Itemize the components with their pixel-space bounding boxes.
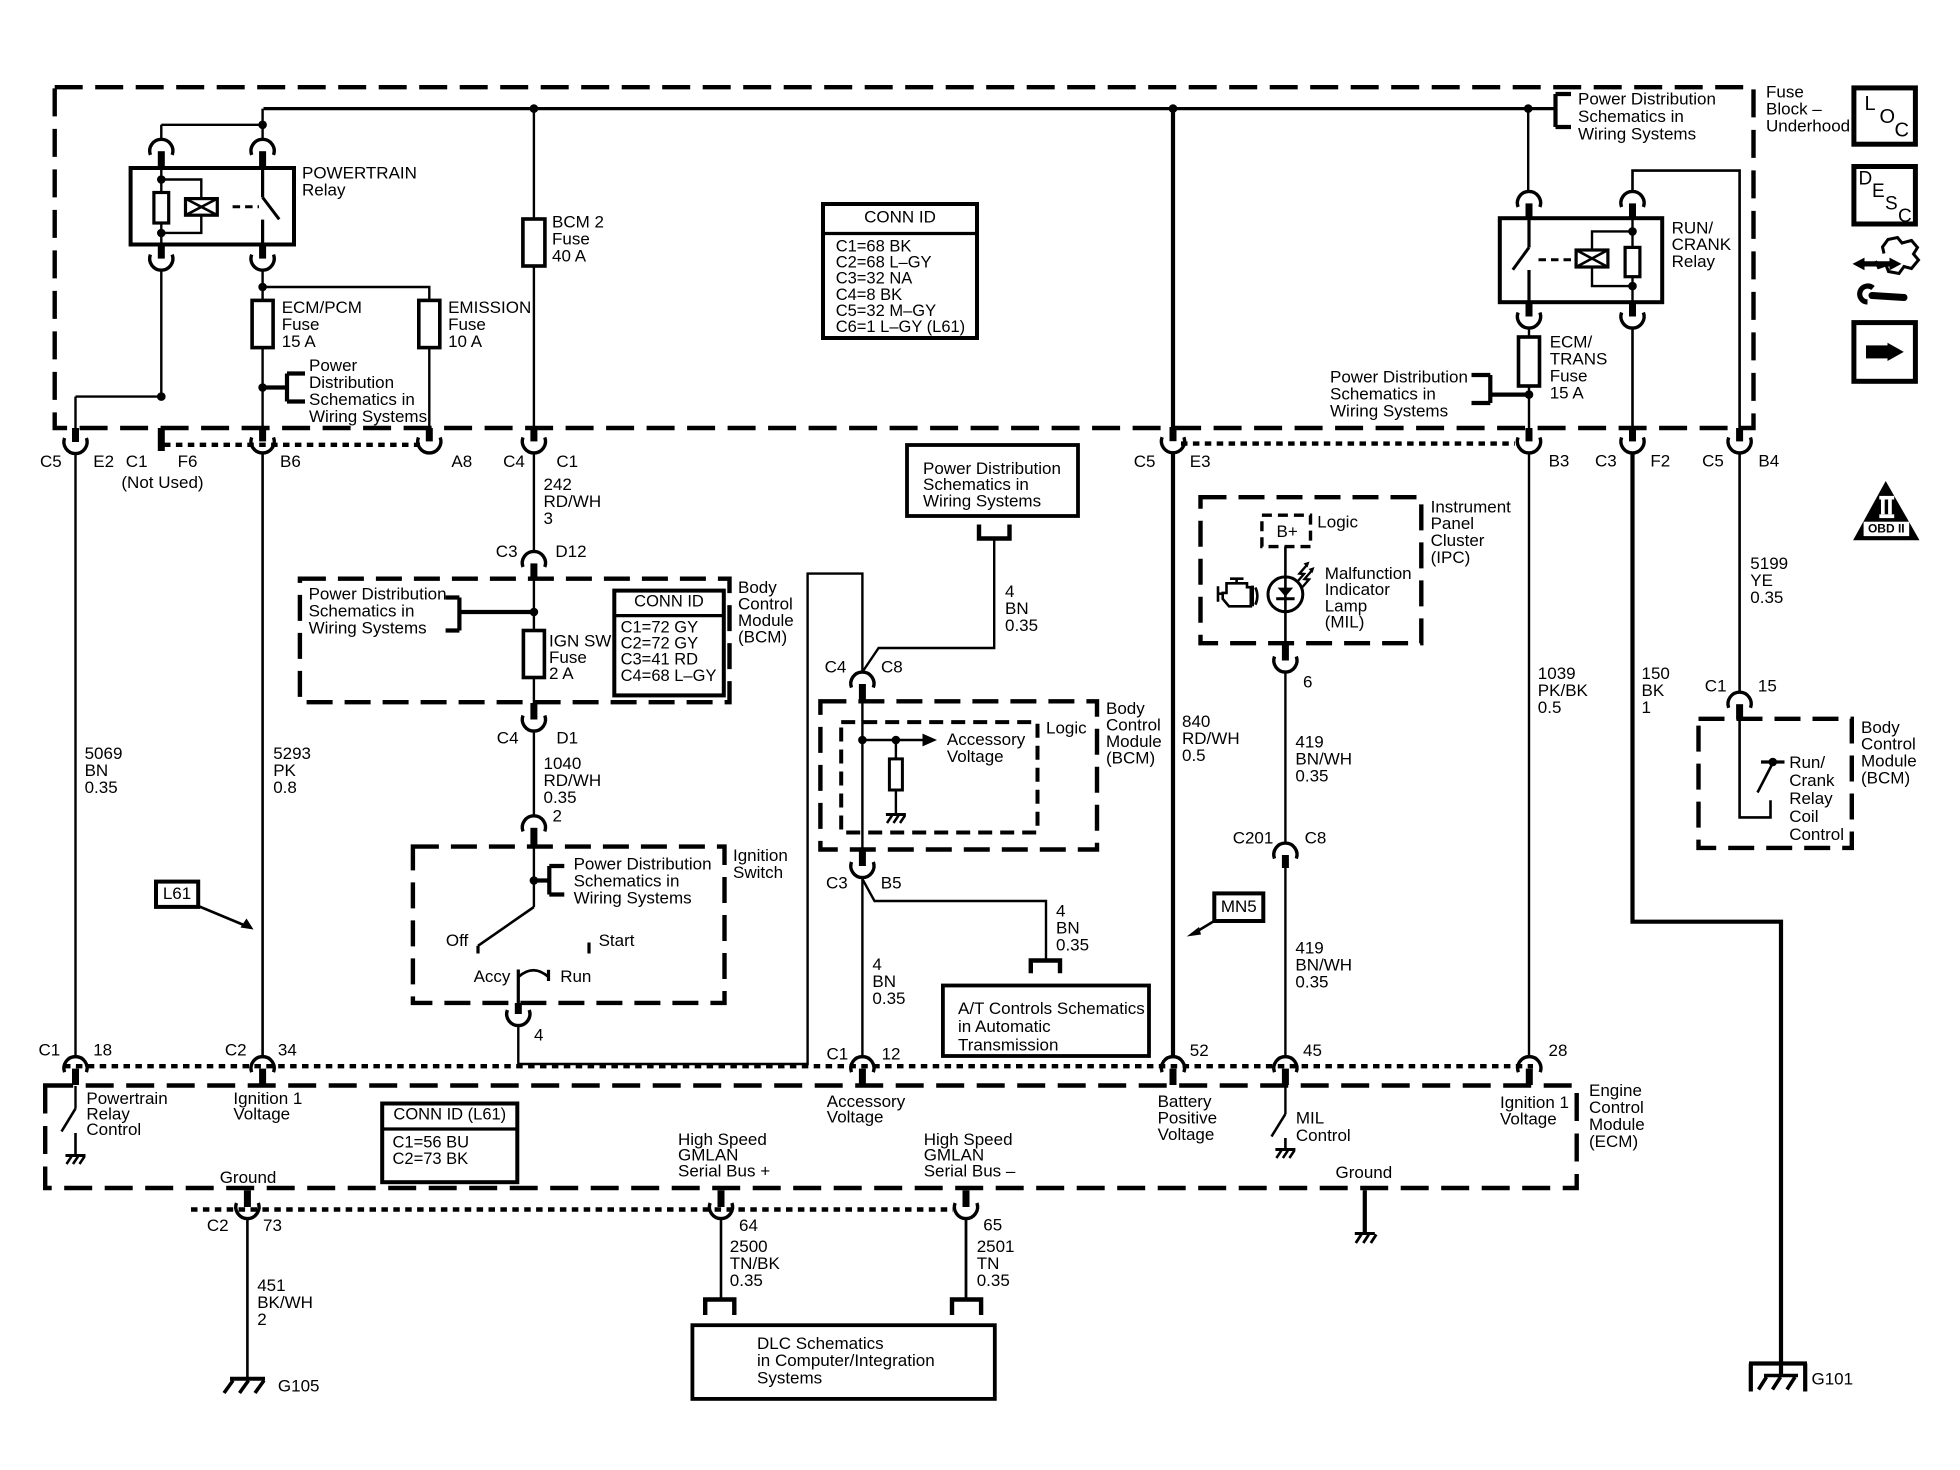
connector C5/E3 [1170,427,1177,441]
svg-text:D1: D1 [556,728,578,747]
ground (BCM logic) [886,813,906,816]
svg-text:Wiring Systems: Wiring Systems [309,407,427,426]
offpage bracket near B6 [263,374,305,402]
underhood connector face dotted line right [1181,441,1515,445]
wire run/crank coil control hook [1740,720,1771,818]
wire ECM/PCM fuse to B6 [261,348,263,428]
ECM powertrain relay control switch [74,1086,76,1109]
connector pin 65 [963,1190,970,1207]
junction dot resistor tap [892,736,901,745]
svg-text:73: 73 [263,1216,282,1235]
MIL lightning bolts [1298,566,1307,582]
svg-text:Underhood: Underhood [1766,116,1850,135]
wire coil loop [161,180,201,233]
svg-text:12: 12 [882,1044,901,1063]
svg-text:15 A: 15 A [282,332,317,351]
ignition Accy contact / pin4 wire [517,970,520,1004]
svg-text:Relay: Relay [1672,252,1716,271]
junction dot bus to BCM2 fuse [530,104,539,113]
svg-text:18: 18 [93,1040,112,1059]
offpage bracket ECM/TRANS [1472,375,1530,403]
svg-text:in Automatic: in Automatic [958,1017,1051,1036]
svg-text:Coil: Coil [1789,807,1818,826]
svg-text:MN5: MN5 [1221,897,1257,916]
svg-text:F6: F6 [178,452,198,471]
underhood connector face dotted line left [164,443,420,447]
junction dot BCM offpage tap [530,608,539,617]
fuse ECM/TRANS 15A [1519,337,1540,386]
relay K powertrain box [131,168,294,245]
svg-text:Ground: Ground [1336,1163,1393,1182]
fuse ECM/PCM 15A [252,300,273,347]
svg-text:L61: L61 [163,884,191,903]
accessory voltage arrow [862,739,923,742]
powertrain relay switch [261,168,264,197]
ignition Start contact [587,943,590,954]
connector C3/D12 [522,551,545,567]
ground (powertrain relay control) [66,1154,86,1157]
svg-text:Logic: Logic [1046,718,1087,737]
svg-text:E: E [1872,181,1885,202]
ignition switch blade [478,907,534,946]
svg-text:C3: C3 [496,542,518,561]
svg-text:C5: C5 [1134,452,1156,471]
svg-text:Systems: Systems [757,1368,822,1387]
svg-text:Run: Run [560,967,591,986]
resistor BCM pulldown [889,759,902,790]
svg-text:Wiring Systems: Wiring Systems [574,888,692,907]
svg-text:Ground: Ground [220,1168,277,1187]
svg-text:15: 15 [1758,676,1777,695]
resistor powertrain relay coil suppressor [154,193,169,224]
connector B6 [259,428,266,441]
connector IPC pin 6 [1282,643,1289,660]
logic inner dashed box [841,722,1037,832]
offpage cap bracket A/T [1029,961,1063,974]
wire B+ to MIL lamp [1284,547,1287,644]
svg-text:Relay: Relay [1789,789,1833,808]
ignition switch dashed box [413,847,725,1003]
svg-text:0.35: 0.35 [1295,972,1328,991]
wire ignition pin2 inside [533,847,535,907]
svg-text:0.35: 0.35 [1005,616,1038,635]
svg-text:Relay: Relay [302,180,346,199]
svg-text:C6=1 L–GY (L61): C6=1 L–GY (L61) [836,318,966,336]
wire coil bottom [160,223,162,245]
svg-text:40 A: 40 A [552,246,587,265]
junction dot ignition offpage tap [530,876,539,885]
offpage bracket top right [1556,94,1572,127]
ground G101 [1749,1361,1807,1365]
svg-text:Accy: Accy [474,967,511,986]
junction dot run/crank coil top [1628,227,1637,236]
wire run/crank right pin to F2 [1631,328,1634,428]
engine icon (check engine) [1230,579,1244,584]
wire powertrain relay feed corner [161,109,262,140]
wire 5199 YE [1738,453,1741,692]
connector C1/12 [851,1057,874,1073]
label MN5 box [1214,893,1263,921]
wire relay left pin to F6 and E2 link [76,270,162,428]
svg-text:15 A: 15 A [1550,383,1585,402]
connector C5/E2 [72,428,79,442]
svg-text:3: 3 [544,509,553,528]
wire run/crank coil feed top [1633,171,1740,428]
svg-text:S: S [1885,193,1898,214]
wire B5 to C1/12 [861,878,863,1057]
connector powertrain relay pin 85 (right top) [251,139,274,155]
ECM bottom connector face dotted line [191,1207,953,1211]
BCM coil control dashed box [1699,719,1852,848]
svg-text:(BCM): (BCM) [738,628,787,647]
connector C5/B4 [1736,428,1743,441]
svg-text:D12: D12 [555,542,586,561]
connector C2/34 [251,1057,274,1073]
ground G105 [230,1377,265,1381]
svg-text:G105: G105 [278,1376,320,1395]
wire run/crank coil bottom [1631,277,1633,303]
fuse block underhood dashed box [55,87,1754,428]
connector ignition switch pin 2 [522,816,545,832]
coil powertrain relay winding (X box) [186,199,218,216]
icon wrench arrows [1861,261,1893,266]
box Power Distribution Schematics (solid) [907,445,1078,516]
ground (ECM internal) [1355,1232,1375,1235]
connector powertrain relay pin 87 (right bottom) [259,245,266,259]
connector A8 [426,428,433,441]
coil run/crank winding (X box) [1576,250,1608,267]
svg-text:Voltage: Voltage [1158,1125,1215,1144]
lamp MIL circle [1268,577,1303,612]
svg-text:DLC Schematics: DLC Schematics [757,1334,884,1353]
ECM top connector face dotted line [64,1064,1533,1068]
MN5 arrow [1196,921,1215,933]
svg-text:2: 2 [553,806,562,825]
svg-text:L: L [1865,93,1876,115]
offpage bracket BCM [446,598,534,631]
connector powertrain relay pin 86 (left top) [150,139,173,155]
junction dot F6 wire link [157,392,166,401]
wire bus to BCM2 fuse [533,109,535,219]
junction dot ECM/TRANS offpage tap [1525,390,1534,399]
connector C3/B5 [859,850,866,867]
svg-text:C1: C1 [556,452,578,471]
svg-text:C3: C3 [1595,451,1617,470]
ignition Accy-Run arc [518,970,548,977]
svg-text:45: 45 [1303,1041,1322,1060]
junction dot logic node [858,736,867,745]
wire to ECM/PCM fuse [261,287,263,300]
L61 arrow [198,906,245,926]
wire inside BCM to IGN SW fuse [533,578,535,631]
svg-text:Start: Start [599,931,635,950]
ignition Run contact [547,970,550,981]
svg-text:C8: C8 [1305,828,1327,847]
svg-text:CONN ID: CONN ID [634,593,704,611]
svg-text:MIL: MIL [1296,1108,1324,1127]
connector C4/C8 [851,672,874,688]
svg-text:Wiring Systems: Wiring Systems [309,618,427,637]
connector pin 28 [1518,1057,1541,1073]
svg-text:(BCM): (BCM) [1861,768,1910,787]
connector B3 [1526,428,1533,441]
svg-text:Voltage: Voltage [233,1105,290,1124]
MIL LED cathode bar [1276,597,1294,600]
icon LOC box [1854,88,1916,144]
junction dot B6 offpage tap [258,383,267,392]
svg-text:0.5: 0.5 [1182,746,1206,765]
connector C1/15 [1728,692,1751,708]
wire main feed bus [264,107,1556,110]
svg-text:C1: C1 [39,1040,61,1059]
junction dot bus to battery feed [1169,104,1178,113]
connector ignition pin 4 [515,1003,522,1014]
connector C3/F2 [1629,428,1636,441]
svg-text:52: 52 [1190,1041,1209,1060]
svg-text:Control: Control [86,1120,141,1139]
svg-text:Schematics in: Schematics in [1578,107,1684,126]
svg-text:F2: F2 [1650,451,1670,470]
svg-text:Voltage: Voltage [1500,1110,1557,1129]
svg-text:D: D [1859,168,1873,189]
svg-text:G101: G101 [1812,1369,1854,1388]
svg-text:C2: C2 [207,1216,229,1235]
BCM dashed box (ign sw fuse) [300,579,730,703]
wire 2501 TN [965,1219,968,1300]
svg-text:Wiring Systems: Wiring Systems [1330,401,1448,420]
connector pin 45 [1274,1057,1297,1073]
svg-text:4: 4 [534,1025,543,1044]
BCM logic outer dashed box [820,701,1097,849]
svg-text:B+: B+ [1277,522,1298,541]
svg-text:Wiring Systems: Wiring Systems [923,491,1041,510]
table CONN ID (L61) [382,1104,517,1183]
offpage cap bracket DLC+ [703,1300,737,1316]
wire 419 BN/WH lower [1284,868,1286,1057]
svg-text:C2: C2 [225,1040,247,1059]
wire IGN SW fuse to C4/D1 [533,678,535,704]
resistor run/crank coil suppressor [1625,247,1640,276]
wire 2500 TN/BK [720,1219,723,1300]
svg-text:B5: B5 [881,873,902,892]
wire ECM/TRANS fuse to B3 [1528,386,1530,428]
wire 5293 PK (ignition 1 voltage) [261,453,264,1057]
svg-text:Off: Off [446,931,469,950]
wire through BCM logic [861,702,863,850]
wire emission branch [263,287,430,300]
svg-text:0.35: 0.35 [730,1271,763,1290]
svg-text:Wiring Systems: Wiring Systems [1578,124,1696,143]
svg-text:CONN ID (L61): CONN ID (L61) [393,1106,506,1124]
wire 242 RD/WH [533,453,535,551]
svg-text:Control: Control [1789,825,1844,844]
svg-text:0.35: 0.35 [85,778,118,797]
svg-text:C8: C8 [881,657,903,676]
B+ dashed box [1262,515,1311,546]
svg-text:B4: B4 [1758,451,1779,470]
wire C3/B5 branch to A/T [862,879,1046,961]
connector pin 52 [1161,1057,1184,1073]
wire 5069 BN (powertrain relay control) [74,454,76,1057]
svg-text:C1: C1 [1705,676,1727,695]
connector run/crank relay right top pin [1621,191,1644,207]
junction dot run/crank coil bottom [1628,282,1637,291]
junction dot coil bottom [157,229,166,238]
wire run/crank to ECM/TRANS fuse [1528,328,1530,337]
svg-text:0.35: 0.35 [872,989,905,1008]
svg-text:C: C [1898,206,1912,227]
svg-text:O: O [1880,106,1896,128]
wire to pulldown resistor [895,740,897,759]
svg-text:C5: C5 [1702,451,1724,470]
connector C201/C8 [1274,843,1297,859]
wire 1040 RD/WH [533,731,535,816]
svg-text:E3: E3 [1190,452,1211,471]
wire BCM2 fuse to C4/C1 [533,266,535,428]
IPC dashed box [1201,497,1422,643]
ECM dashed box [45,1086,1577,1189]
fuse EMISSION 10A [419,300,440,347]
wire bus to run/crank switch pin [1527,109,1529,192]
svg-text:(MIL): (MIL) [1325,613,1365,632]
svg-text:Serial Bus +: Serial Bus + [678,1162,770,1181]
connector C2/73 [244,1190,251,1207]
wire 840 RD/WH battery positive [1171,453,1175,1057]
offpage cap bracket DLC- [950,1300,984,1316]
icon arrow box [1854,323,1916,382]
svg-text:(ECM): (ECM) [1589,1132,1638,1151]
svg-text:Logic: Logic [1317,512,1358,531]
junction dot relay feed link [258,121,267,130]
svg-text:B3: B3 [1549,451,1570,470]
offpage cup bracket under box [979,525,1010,539]
svg-text:Transmission: Transmission [958,1036,1058,1055]
svg-text:C1: C1 [126,452,148,471]
relay K run/crank box [1500,218,1662,302]
svg-text:1: 1 [1642,698,1651,717]
fuse IGN SW 2A [523,631,544,678]
run/crank coil control contact [1761,760,1785,763]
wire bus to E3 [1171,109,1175,427]
wire pin4 to BCM C8 riser [518,574,862,1064]
svg-text:C1=56 BU: C1=56 BU [393,1134,470,1152]
MIL LED triangle [1278,588,1294,597]
svg-text:B6: B6 [280,452,301,471]
svg-text:2: 2 [257,1310,266,1329]
svg-text:C3: C3 [826,873,848,892]
run/crank relay switch [1527,218,1530,247]
run/crank relay linkage dashes [1539,258,1572,261]
svg-text:(Not Used): (Not Used) [121,473,203,492]
svg-text:C5: C5 [40,452,62,471]
wire 150 BK to G101 [1633,453,1782,1375]
svg-text:Control: Control [1296,1126,1351,1145]
wire 1039 PK/BK [1528,453,1530,1057]
svg-text:0.35: 0.35 [1295,766,1328,785]
svg-text:Serial Bus –: Serial Bus – [924,1162,1016,1181]
box DLC Schematics [692,1325,994,1399]
table CONN ID (underhood) [823,204,977,338]
connector F6 (not used) [158,428,165,451]
connector C4/C1 [530,428,537,441]
svg-text:Crank: Crank [1789,771,1835,790]
wire relay right pin down [261,270,263,287]
ground (MIL control) [1275,1148,1295,1151]
junction dot bus to run/crank relay [1524,104,1533,113]
connector powertrain relay pin 30 (left bottom) [158,245,165,259]
table CONN ID (BCM) [614,591,724,696]
fuse BCM 2 40A [523,219,545,266]
svg-text:A8: A8 [451,452,472,471]
svg-text:C201: C201 [1233,828,1274,847]
icon DESC box [1854,167,1916,225]
svg-text:C4: C4 [503,452,525,471]
svg-text:Power Distribution: Power Distribution [1578,89,1716,108]
ECM MIL control switch [1284,1086,1286,1114]
svg-text:34: 34 [278,1040,297,1059]
box A/T Controls Schematics [943,986,1149,1057]
connector run/crank right bottom pin [1629,302,1636,316]
svg-text:2 A: 2 A [549,664,574,683]
svg-text:C: C [1895,120,1909,142]
wire run/crank coil loop [1592,231,1633,286]
connector pin 64 [718,1190,725,1207]
svg-text:6: 6 [1303,672,1312,691]
wire 419 BN/WH upper [1284,672,1286,843]
wire resistor to ground [895,790,897,814]
run/crank coil line [1631,218,1633,247]
svg-text:Switch: Switch [733,863,783,882]
ECM ground pin wire [1363,1190,1367,1233]
svg-text:65: 65 [983,1215,1002,1234]
svg-text:in Computer/Integration: in Computer/Integration [757,1351,935,1370]
svg-text:Run/: Run/ [1789,753,1825,772]
svg-text:Voltage: Voltage [827,1108,884,1127]
junction dot coil control pivot [1769,758,1778,767]
powertrain relay coil feed wire [160,168,162,193]
svg-text:28: 28 [1549,1041,1568,1060]
connector C1/18 [64,1057,87,1073]
run/crank coil control blade [1758,763,1773,793]
svg-text:E2: E2 [93,452,114,471]
svg-text:(BCM): (BCM) [1106,749,1155,768]
svg-text:0.35: 0.35 [1056,935,1089,954]
svg-text:0.35: 0.35 [544,788,577,807]
connector C4/D1 [530,703,537,720]
junction dot emission branch [258,283,267,292]
junction dot coil top [157,175,166,184]
svg-text:C1: C1 [827,1044,849,1063]
wire 4 BN from power dist [862,539,994,673]
svg-text:Voltage: Voltage [947,747,1004,766]
svg-text:64: 64 [739,1216,758,1235]
wire 451 BK/WH to G105 [246,1219,249,1377]
icon OBD II triangle [1853,481,1919,540]
ignition Off contact [476,946,479,954]
svg-text:0.35: 0.35 [1750,588,1783,607]
connector run/crank relay left top pin [1517,191,1540,207]
svg-text:0.35: 0.35 [977,1271,1010,1290]
svg-text:0.5: 0.5 [1538,698,1562,717]
label L61 box [156,882,198,907]
wire emission fuse to A8 [428,348,430,428]
powertrain relay linkage dashes [233,205,259,208]
svg-text:(IPC): (IPC) [1431,548,1471,567]
svg-text:CONN ID: CONN ID [864,207,936,226]
svg-text:C4: C4 [497,728,519,747]
svg-text:C4=68 L–GY: C4=68 L–GY [621,667,717,685]
connector run/crank left bottom pin [1526,302,1533,316]
